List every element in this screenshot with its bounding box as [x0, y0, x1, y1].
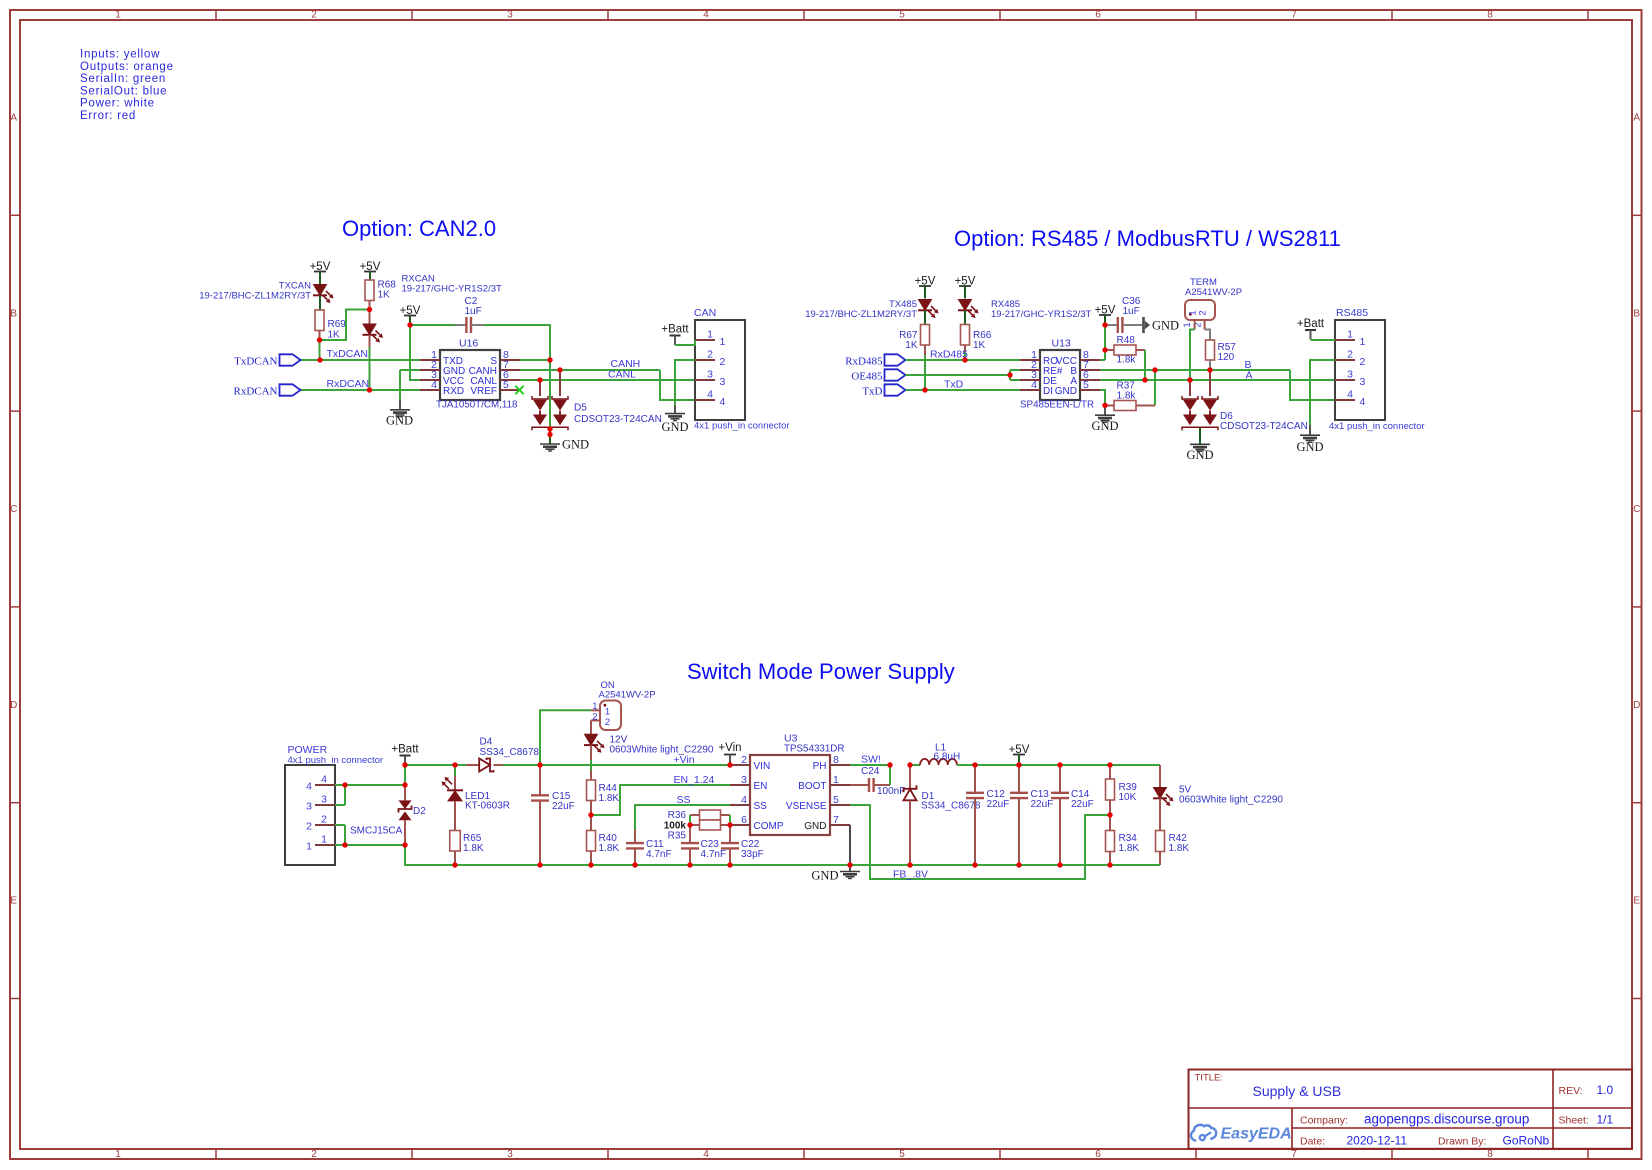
flag TxDCAN [234, 354, 300, 367]
power +5V (U13 VCC) [1095, 305, 1116, 326]
svg-text:GoRoNb: GoRoNb [1503, 1134, 1550, 1148]
junction D2 top [402, 782, 407, 787]
svg-text:GND: GND [1055, 386, 1077, 397]
svg-text:0603White light_C2290: 0603White light_C2290 [1179, 795, 1283, 806]
svg-text:VREF: VREF [470, 386, 497, 397]
svg-text:1: 1 [1347, 329, 1353, 341]
svg-text:1.8k: 1.8k [1117, 391, 1137, 402]
svg-text:Switch Mode Power Supply: Switch Mode Power Supply [687, 659, 955, 684]
svg-text:2: 2 [311, 1149, 317, 1160]
ground GND SMPS [811, 865, 860, 883]
junction D1 rail [907, 762, 912, 767]
ground GND below D5 [540, 429, 589, 452]
resistor R57 [1205, 330, 1237, 371]
svg-text:1.8K: 1.8K [1119, 843, 1140, 854]
junction D5 stem [547, 432, 552, 437]
svg-text:4x1 push_in connector: 4x1 push_in connector [694, 421, 790, 432]
svg-text:CANL: CANL [608, 369, 636, 381]
svg-text:GND: GND [1152, 319, 1179, 333]
svg-text:1: 1 [707, 329, 713, 341]
svg-text:BOOT: BOOT [798, 781, 826, 792]
svg-text:CDSOT23-T24CAN: CDSOT23-T24CAN [574, 414, 662, 425]
svg-text:GND: GND [661, 420, 688, 434]
svg-text:R36: R36 [668, 810, 687, 821]
svg-text:6: 6 [1095, 1149, 1101, 1160]
svg-text:RxD485: RxD485 [845, 356, 883, 368]
diode D1 SS34 schottky [904, 765, 981, 865]
connector CAN 4x1 [694, 307, 790, 432]
wire TxDCAN row [301, 359, 421, 361]
wire pin2 to GND [675, 360, 695, 405]
svg-text:VIN: VIN [754, 761, 771, 772]
svg-text:SS34_C8678: SS34_C8678 [480, 747, 540, 758]
resistor R68 [365, 280, 396, 310]
junction pins12 [342, 842, 347, 847]
svg-text:GND: GND [562, 438, 589, 452]
svg-text:A2541WV-2P: A2541WV-2P [599, 690, 656, 701]
svg-text:1K: 1K [905, 340, 918, 351]
svg-text:EN: EN [754, 781, 768, 792]
svg-text:D2: D2 [413, 806, 426, 817]
wire GND pin5 [1100, 390, 1105, 405]
svg-text:A2541WV-2P: A2541WV-2P [1185, 287, 1242, 298]
wire net B [1100, 370, 1335, 400]
svg-text:+Vin: +Vin [674, 754, 695, 766]
junction C12 rail [972, 762, 977, 767]
svg-text:B: B [10, 308, 17, 319]
junction D2 bottom [402, 842, 407, 847]
svg-text:TJA1050T/CM,118: TJA1050T/CM,118 [436, 400, 518, 411]
svg-text:1: 1 [833, 774, 839, 786]
svg-text:E: E [1633, 896, 1640, 907]
svg-text:TPS54331DR: TPS54331DR [784, 744, 844, 755]
inductor L1 [910, 743, 975, 766]
resistor R67 [899, 325, 929, 356]
svg-text:Company:: Company: [1300, 1115, 1348, 1127]
junction OE485 [1007, 372, 1012, 377]
capacitor C15 [531, 765, 575, 865]
IC U16 TJA1050T [420, 338, 520, 411]
junction U3 GND rail [847, 862, 852, 867]
svg-text:4: 4 [1360, 396, 1366, 408]
junction C12 GND rail [972, 862, 977, 867]
junction CANL D5 [537, 377, 542, 382]
svg-text:8: 8 [1487, 10, 1493, 21]
svg-text:33pF: 33pF [741, 849, 764, 860]
svg-text:COMP: COMP [754, 821, 784, 832]
svg-text:1.0: 1.0 [1597, 1083, 1614, 1097]
junction B R37 [1152, 367, 1157, 372]
svg-text:Power: white: Power: white [80, 98, 155, 110]
wire S column vertical [549, 360, 551, 429]
svg-text:4: 4 [703, 10, 709, 21]
resistor R44 [587, 780, 620, 815]
svg-text:EN_1.24: EN_1.24 [674, 774, 715, 786]
svg-text:D: D [10, 700, 17, 711]
LED TX485 [805, 299, 938, 325]
wire R48 to A [1144, 350, 1146, 380]
junction R65 GND rail [452, 862, 457, 867]
header TERM A2541WV-2P [1182, 277, 1242, 330]
svg-text:5: 5 [899, 1149, 905, 1160]
junction RxDCAN [367, 387, 372, 392]
svg-text:3: 3 [1347, 369, 1353, 381]
wire OE485 row [906, 370, 1021, 380]
power +5V (R68 column) [360, 261, 381, 280]
svg-text:Drawn By:: Drawn By: [1438, 1136, 1486, 1148]
title block [1189, 1070, 1633, 1149]
svg-text:1uF: 1uF [1123, 306, 1140, 317]
wire POWER pin2 tie [335, 825, 345, 845]
power +5V (VCC column) [400, 305, 421, 325]
svg-text:4.7nF: 4.7nF [646, 849, 672, 860]
svg-text:22uF: 22uF [1071, 799, 1094, 810]
wire VSENSE FB net [850, 805, 1110, 879]
svg-text:Error: red: Error: red [80, 110, 136, 122]
svg-text:+Batt: +Batt [391, 744, 419, 756]
svg-text:Option: RS485 / ModbusRTU / WS: Option: RS485 / ModbusRTU / WS2811 [954, 226, 1341, 251]
wire POWER pin3 tie [335, 785, 345, 805]
svg-text:SW!: SW! [861, 754, 881, 766]
junction C14 rail [1057, 762, 1062, 767]
svg-text:3: 3 [707, 369, 713, 381]
junction R69 bottom [317, 337, 322, 342]
junction R48 left [1102, 347, 1107, 352]
svg-text:22uF: 22uF [1031, 799, 1054, 810]
wire rail to R39 LED [975, 764, 1160, 766]
svg-text:1.8K: 1.8K [1169, 843, 1190, 854]
IC U13 SP485EEN [1020, 338, 1100, 411]
junction R44 EN [588, 812, 593, 817]
svg-text:1uF: 1uF [465, 306, 482, 317]
svg-text:4: 4 [720, 396, 726, 408]
svg-text:GND: GND [804, 821, 826, 832]
svg-text:RxDCAN: RxDCAN [327, 378, 370, 390]
svg-text:PH: PH [813, 761, 827, 772]
wire top rail [405, 764, 730, 766]
svg-text:8: 8 [1487, 1149, 1493, 1160]
no-connect X on VREF [515, 386, 523, 394]
svg-text:TxDCAN: TxDCAN [234, 356, 277, 368]
svg-text:Inputs: yellow: Inputs: yellow [80, 49, 160, 61]
capacitor C14 [1051, 765, 1094, 865]
svg-text:19-217/BHC-ZL1M2RY/3T: 19-217/BHC-ZL1M2RY/3T [805, 309, 917, 320]
wire R36-R35 right tie [729, 815, 731, 825]
svg-text:TxDCAN: TxDCAN [327, 348, 368, 360]
svg-text:6: 6 [1095, 10, 1101, 21]
svg-text:DI: DI [1043, 386, 1053, 397]
svg-text:1.8k: 1.8k [1117, 355, 1137, 366]
svg-text:4: 4 [431, 379, 437, 391]
wire RxDCAN row [301, 389, 370, 391]
junction +Vin VIN [727, 762, 732, 767]
junction R39 FB [1107, 812, 1112, 817]
resistor R40 [587, 815, 620, 865]
wire ON pin1 to +Vin rail [540, 710, 591, 765]
junction LED1 D4 [452, 762, 457, 767]
legend text block [80, 49, 174, 123]
connector POWER 4x1 [285, 744, 383, 865]
junction TxD R67 [922, 387, 927, 392]
svg-text:4x1 push_in connector: 4x1 push_in connector [1329, 421, 1425, 432]
svg-text:1.8K: 1.8K [599, 843, 620, 854]
wire SS net [635, 805, 730, 830]
svg-text:C24: C24 [861, 766, 880, 777]
svg-text:4: 4 [321, 774, 327, 786]
wire +5V to VCC pin [410, 325, 420, 380]
TVS diode D5 CDSOT23-T24CAN [532, 370, 662, 430]
svg-text:1K: 1K [973, 340, 986, 351]
svg-text:E: E [10, 896, 17, 907]
svg-text:4: 4 [741, 794, 747, 806]
svg-text:1: 1 [720, 336, 726, 348]
svg-text:REV:: REV: [1559, 1085, 1583, 1097]
svg-text:22uF: 22uF [987, 799, 1010, 810]
svg-text:2: 2 [605, 717, 610, 728]
junction S column [547, 357, 552, 362]
svg-text:SerialOut: blue: SerialOut: blue [80, 85, 167, 97]
svg-text:3: 3 [1360, 376, 1366, 388]
svg-text:1: 1 [321, 834, 327, 846]
svg-text:RXD: RXD [443, 386, 464, 397]
svg-text:7: 7 [833, 814, 839, 826]
junction R34 GND rail [1107, 862, 1112, 867]
wire C2 to S pin column [484, 325, 550, 360]
wire jog R69-R68 [320, 310, 370, 341]
svg-text:5: 5 [1083, 379, 1089, 391]
svg-text:19-217/GHC-YR1S2/3T: 19-217/GHC-YR1S2/3T [991, 309, 1092, 320]
wire R67 to TxD [924, 355, 926, 390]
LED 5V indicator [1153, 765, 1283, 831]
svg-text:SP485EEN-L/TR: SP485EEN-L/TR [1020, 400, 1094, 411]
junction C13 GND rail [1016, 862, 1021, 867]
flag OE485 [851, 369, 905, 382]
title block texts [1195, 1073, 1614, 1148]
svg-text:SerialIn: green: SerialIn: green [80, 73, 166, 85]
power +5V (TX485 column) [915, 276, 936, 299]
svg-text:2: 2 [741, 754, 747, 766]
svg-text:GND: GND [1091, 419, 1118, 433]
wire CANL [520, 379, 695, 381]
ground GND below CAN connector [661, 405, 688, 434]
svg-text:4x1 push_in connector: 4x1 push_in connector [288, 755, 384, 766]
junction C24 PH [887, 762, 892, 767]
wire R66 to RxD485 [964, 352, 966, 360]
svg-text:GND: GND [386, 414, 413, 428]
svg-text:2: 2 [306, 821, 312, 833]
wire EN net [591, 785, 730, 815]
EasyEDA logo [1191, 1125, 1292, 1143]
svg-text:TITLE:: TITLE: [1195, 1073, 1224, 1084]
resistor R34 [1106, 815, 1140, 865]
ground GND below U13 [1091, 405, 1118, 433]
LED RX485 [958, 299, 1092, 325]
resistor R66 [961, 325, 992, 353]
junction C14 GND rail [1057, 862, 1062, 867]
junction C23 GND rail [687, 862, 692, 867]
wire R36-R35 left tie [689, 815, 691, 825]
svg-text:2: 2 [311, 10, 317, 21]
svg-text:U16: U16 [459, 338, 478, 350]
svg-text:6: 6 [741, 814, 747, 826]
wire COMP stub [729, 824, 731, 826]
svg-text:Outputs: orange: Outputs: orange [80, 61, 174, 73]
svg-text:+Batt: +Batt [1297, 318, 1325, 330]
IC U3 TPS54331DR [730, 733, 850, 836]
junction +5V C36 [1102, 322, 1107, 327]
svg-text:4: 4 [1347, 389, 1353, 401]
svg-text:GND: GND [1296, 440, 1323, 454]
wire net A [1100, 379, 1335, 381]
svg-text:RxDCAN: RxDCAN [233, 386, 277, 398]
junction C11 GND rail [632, 862, 637, 867]
flag RxD485 [845, 354, 905, 367]
svg-text:100nF: 100nF [877, 786, 905, 797]
svg-text:OE485: OE485 [851, 371, 883, 383]
svg-text:3: 3 [720, 376, 726, 388]
capacitor C11 [626, 830, 672, 865]
wire +Batt column [404, 765, 406, 785]
resistor R42 [1156, 831, 1190, 866]
LED RXCAN [363, 274, 503, 348]
svg-text:1K: 1K [328, 330, 341, 341]
svg-text:RS485: RS485 [1336, 307, 1368, 319]
svg-text:4: 4 [306, 781, 312, 793]
svg-text:1/1: 1/1 [1597, 1113, 1614, 1127]
junction R39 rail [1107, 762, 1112, 767]
flag TxD [862, 384, 905, 397]
svg-text:FB_.8V: FB_.8V [893, 869, 928, 881]
junction COMP left [687, 822, 692, 827]
svg-text:1: 1 [1182, 322, 1193, 327]
svg-text:3: 3 [321, 794, 327, 806]
svg-text:0603White light_C2290: 0603White light_C2290 [610, 745, 714, 756]
svg-text:1: 1 [115, 10, 121, 21]
capacitor C23 [681, 825, 726, 865]
wire TERM pin1 to A [1190, 330, 1195, 381]
power +5V (LED TXCAN column) [310, 261, 331, 284]
svg-text:10K: 10K [1119, 792, 1137, 803]
svg-text:R69: R69 [328, 319, 347, 330]
LED 12V indicator [584, 721, 714, 781]
ground arrow GND at C36 [1144, 317, 1180, 333]
svg-text:D5: D5 [574, 403, 587, 414]
LED TXCAN [199, 281, 333, 311]
junction +5V C2 [407, 322, 412, 327]
power +5V SMPS [1009, 744, 1030, 765]
svg-text:Option: CAN2.0: Option: CAN2.0 [342, 216, 496, 241]
svg-text:TxD: TxD [862, 386, 882, 398]
svg-text:1: 1 [306, 841, 312, 853]
svg-text:CDSOT23-T24CAN: CDSOT23-T24CAN [1220, 421, 1308, 432]
svg-text:SMCJ15CA: SMCJ15CA [350, 826, 403, 837]
resistor R35 [668, 820, 730, 842]
svg-text:CAN: CAN [694, 307, 716, 319]
svg-text:SS: SS [754, 801, 768, 812]
svg-text:19-217/BHC-ZL1M2RY/3T: 19-217/BHC-ZL1M2RY/3T [199, 291, 311, 302]
junction C13 rail [1016, 762, 1021, 767]
power +Vin symbol [718, 742, 741, 765]
capacitor C22 [721, 825, 764, 865]
junction GND R37 [1102, 403, 1107, 408]
junction R48 A [1142, 377, 1147, 382]
svg-text:R35: R35 [668, 831, 687, 842]
power +Batt CAN [661, 324, 689, 346]
wire +Batt to pin1 RS485 [1311, 339, 1336, 341]
svg-text:4: 4 [703, 1149, 709, 1160]
connector RS485 4x1 [1329, 307, 1425, 432]
junction D1 GND rail [907, 862, 912, 867]
svg-text:1: 1 [605, 707, 610, 718]
svg-text:2020-12-11: 2020-12-11 [1347, 1134, 1408, 1148]
junction C22 GND rail [727, 862, 732, 867]
svg-text:8: 8 [833, 754, 839, 766]
svg-text:2: 2 [1347, 349, 1353, 361]
wire GND bottom rail [405, 864, 1160, 866]
svg-text:+Batt: +Batt [661, 324, 689, 336]
svg-text:3: 3 [507, 1149, 513, 1160]
svg-text:3: 3 [306, 801, 312, 813]
junction D5 bottom [547, 426, 552, 431]
resistor R69 [315, 310, 346, 341]
wire PH to SW [850, 764, 890, 766]
svg-text:2: 2 [1360, 356, 1366, 368]
junction B R57 [1207, 367, 1212, 372]
svg-text:R48: R48 [1117, 335, 1136, 346]
svg-text:1: 1 [115, 1149, 121, 1160]
resistor R37 [1105, 370, 1155, 411]
wire pin2 to GND RS485 [1310, 360, 1335, 425]
capacitor C2 [410, 296, 484, 333]
power +Batt SMPS [391, 744, 419, 766]
junction R68 bottom [367, 307, 372, 312]
svg-text:A: A [10, 113, 17, 124]
svg-text:3: 3 [741, 774, 747, 786]
svg-text:D4: D4 [480, 737, 493, 748]
svg-text:6.8uH: 6.8uH [934, 752, 961, 763]
svg-text:4: 4 [1031, 379, 1037, 391]
svg-text:5: 5 [899, 10, 905, 21]
resistor R39 [1106, 765, 1138, 815]
wire U3 GND pin [849, 825, 851, 865]
junction C15 rail [537, 762, 542, 767]
capacitor C24 [850, 766, 905, 797]
svg-text:1.8K: 1.8K [463, 843, 484, 854]
svg-text:GND: GND [811, 869, 838, 883]
svg-text:22uF: 22uF [552, 801, 575, 812]
svg-text:2: 2 [720, 356, 726, 368]
svg-text:GND: GND [1186, 448, 1213, 462]
svg-text:1.8K: 1.8K [599, 793, 620, 804]
svg-text:Supply & USB: Supply & USB [1253, 1083, 1342, 1099]
svg-text:B: B [1633, 308, 1640, 319]
wire R69 to TxDCAN [319, 340, 321, 360]
power +5V (RX485 column) [955, 276, 976, 299]
LED LED1 KT-0603R [442, 765, 511, 831]
wire GND rail start [405, 845, 455, 865]
wire +5V to VCC [1100, 325, 1105, 360]
wire +Batt to pin1 [675, 340, 695, 345]
svg-text:SS: SS [677, 794, 691, 806]
svg-text:A: A [1246, 370, 1253, 382]
svg-text:2: 2 [707, 349, 713, 361]
resistor R36 [668, 810, 730, 821]
wire TxD row [906, 389, 1021, 391]
svg-text:SS34_C8678: SS34_C8678 [921, 801, 981, 812]
svg-text:Sheet:: Sheet: [1559, 1115, 1589, 1127]
ground GND below D6 [1186, 427, 1213, 462]
svg-text:7: 7 [1291, 10, 1297, 21]
